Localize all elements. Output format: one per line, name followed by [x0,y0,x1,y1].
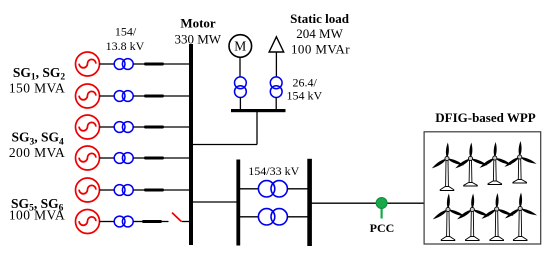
breaker row 4 [144,157,164,160]
generator G3 [76,115,100,139]
svg-text:150 MVA: 150 MVA [9,80,65,95]
svg-text:Static load: Static load [290,11,350,26]
wind turbine 3 [479,142,513,185]
wire G6 to T6 [100,221,115,223]
wire left bus to WPP transformer 1 [240,188,259,190]
WPP box [424,132,541,244]
static load transformer [270,77,282,89]
open switch (red slash) row 6 [172,213,181,222]
154 kV side bus (left) [236,160,240,246]
wire T3 to breaker [133,126,145,128]
load bus bar [231,109,286,112]
generator G1 [76,52,100,76]
svg-text:154/33 kV: 154/33 kV [248,164,299,178]
wire static load to transformer [275,52,277,77]
wire breaker to bus row 2 [164,95,189,97]
wire G3 to T3 [100,126,115,128]
wire load bus down [256,112,258,145]
wire right bus to WPP box (PCC line) [311,202,424,204]
svg-text:100 MVAr: 100 MVAr [291,42,350,57]
wind turbine 1 [431,142,465,190]
wind turbine 7 [481,193,515,241]
wire G4 to T4 [100,157,115,159]
wire WPP transformer 1 to right bus [287,188,308,190]
wire breaker to bus row 5 [164,189,189,191]
wire T4 to breaker [133,157,145,159]
wire left bus to WPP transformer 2 [240,216,259,218]
motor M [229,35,252,58]
wind turbine 6 [456,193,490,240]
generator G4 [76,146,100,170]
static load arrow [269,37,284,52]
transformer T1 [114,59,133,70]
svg-text:154 kV: 154 kV [286,89,322,103]
svg-text:13.8 kV: 13.8 kV [106,39,145,53]
wire breaker to bus row 4 [164,157,189,159]
wire G2 to T2 [100,95,115,97]
wire T1 to breaker [133,63,145,65]
wire breaker row 6 stub [162,221,169,223]
wire WPP transformer 2 to right bus [287,216,308,218]
svg-text:PCC: PCC [370,221,395,235]
main 154 kV bus [189,44,193,245]
WPP transformer 2 [258,209,274,225]
node PCC [376,198,387,209]
svg-text:M: M [234,39,246,54]
svg-text:154/: 154/ [115,24,137,38]
wire switch to bus row 6 [182,221,190,223]
wind turbine 5 [432,193,466,240]
transformer T3 [114,122,133,133]
wire static load transformer to load bus [275,98,277,111]
svg-text:Motor: Motor [180,15,216,30]
wire T6 to breaker [133,221,145,223]
wire breaker to bus row 1 [164,63,189,65]
breaker row 1 [144,63,164,66]
wire G1 to T1 [100,63,115,65]
PCC stem [381,203,383,219]
breaker row 3 [144,126,164,129]
breaker row 2 [144,95,164,98]
wire T2 to breaker [133,95,145,97]
wind turbine 4 [504,141,538,183]
generator G5 [76,178,100,202]
svg-text:DFIG-based WPP: DFIG-based WPP [435,110,536,125]
generator G2 [76,84,100,108]
svg-text:204 MW: 204 MW [296,26,343,41]
motor transformer [235,77,247,89]
wind turbine 8 [504,192,538,240]
svg-text:200 MVA: 200 MVA [9,145,65,160]
wire T5 to breaker [133,189,145,191]
transformer T5 [114,185,133,196]
transformer T4 [114,153,133,164]
svg-text:330 MW: 330 MW [175,31,222,46]
transformer T6 [114,216,133,227]
wind turbine 2 [454,142,488,186]
svg-text:100 MVA: 100 MVA [9,207,65,222]
wire main bus to 33 kV left bus [192,201,238,203]
breaker row 5 [144,189,164,192]
wire motor transformer to load bus [239,98,241,111]
wire breaker to bus row 3 [164,126,189,128]
breaker row 6 [142,220,162,223]
WPP transformer 1 [258,181,274,197]
wire motor to motor transformer [239,57,241,77]
33 kV side bus (right) [307,159,312,246]
generator G6 [76,210,100,234]
wire G5 to T5 [100,189,115,191]
transformer T2 [114,91,133,102]
wire to main bus [192,144,257,146]
